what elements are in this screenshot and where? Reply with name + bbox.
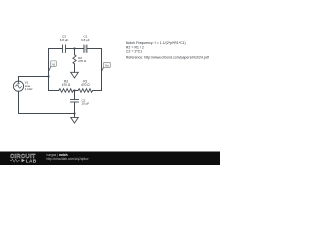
footer watermark bar [0,152,220,166]
capacitor C1 [84,45,87,52]
wire left vertical [48,49,50,91]
svg-text:470 Ω: 470 Ω [62,83,71,87]
wire right vertical [101,49,103,91]
capacitor C2 [71,91,79,114]
svg-text:470 Ω: 470 Ω [81,83,90,87]
junction node top (C3/C1/R2) [73,47,75,49]
ground below C2 [71,114,79,124]
wire middle row left [49,90,59,92]
label C2 value [82,98,90,105]
svg-text:LAB: LAB [26,159,37,165]
resistor R2 [73,49,76,73]
CircuitLab logo [10,154,37,165]
junction node bottom (C2/ground) [73,112,75,114]
svg-text:6.8 µF: 6.8 µF [60,38,69,42]
label R1 value [81,80,90,87]
resistor R1 [78,89,93,93]
resistor R3 [59,89,74,93]
label R2 value [78,56,87,63]
wire bottom row [19,113,75,115]
label V1 value [25,81,33,91]
wire middle junction [73,90,78,92]
voltage source V1 [13,81,23,91]
svg-text:http://circuitlab.com/c/q2qbhw: http://circuitlab.com/c/q2qbhw [47,157,90,161]
wire V1 bottom [18,91,20,113]
svg-text:Vi: Vi [52,62,55,66]
annotation text block [126,41,209,59]
wire middle row right [93,90,102,92]
svg-text:270 Ω: 270 Ω [78,59,87,63]
svg-text:6.8 µF: 6.8 µF [81,38,90,42]
junction node input (V1 branch) [47,75,49,77]
svg-text:C2 = 2*C1: C2 = 2*C1 [126,50,142,54]
svg-text:10 µF: 10 µF [82,102,90,106]
label R3 value [62,80,71,87]
wire V1 top branch [19,77,49,82]
wire top row right [87,48,101,50]
wire top row mid [66,48,83,50]
capacitor C3 [63,45,66,52]
flag Vin [49,61,57,71]
ground below R2 [71,72,79,78]
label C3 value [60,35,69,42]
svg-text:1 kHz: 1 kHz [25,87,33,91]
junction node middle (R3/R1/C2) [73,89,75,91]
wire top row left [49,48,63,50]
label C1 value [81,35,90,42]
flag Vout [102,62,111,71]
svg-text:Reference: http://www.crbond.c: Reference: http://www.crbond.com/papers/… [126,55,209,59]
svg-text:Vo: Vo [105,63,109,67]
